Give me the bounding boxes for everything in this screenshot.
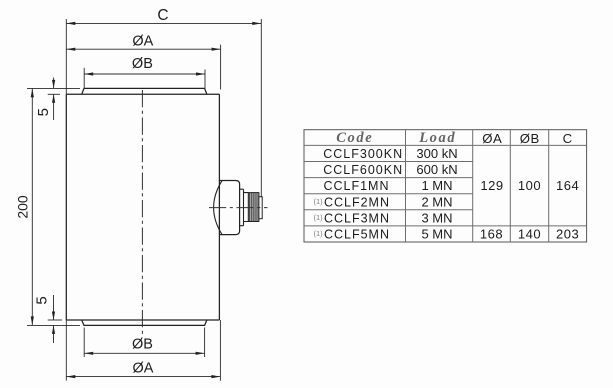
extension tick cylinder bottom level: [48, 319, 62, 321]
arrow 200 bottom: [31, 316, 34, 325]
dimension line 200: [31, 88, 33, 325]
extension line top plate level: [27, 87, 80, 89]
table row line 3: [304, 193, 473, 195]
arrow 200 top: [31, 88, 34, 97]
dimension line 5 top lower: [53, 94, 55, 120]
arrow 5 top down: [52, 80, 55, 89]
table vertical line Code|Load: [405, 130, 407, 242]
svg-text:(1): (1): [314, 197, 324, 206]
arrow 5 bottom down: [52, 312, 55, 321]
dimension line 5 bottom upper: [53, 295, 55, 320]
arrow OB top left: [84, 72, 93, 75]
table header underline: [304, 144, 587, 146]
svg-text:CCLF3MN: CCLF3MN: [324, 211, 390, 225]
svg-text:ØB: ØB: [520, 131, 540, 146]
dimension line C: [66, 22, 261, 24]
arrow 5 bottom up: [52, 325, 55, 334]
bottom load button plate: [82, 320, 207, 325]
dimension line 5 top upper: [53, 78, 55, 89]
vertical centerline: [141, 90, 143, 334]
extension line bottom plate level: [27, 324, 80, 326]
arrow OB bottom right: [196, 352, 205, 355]
svg-text:300 kN: 300 kN: [416, 146, 457, 161]
dimension line 5 bottom lower: [53, 325, 55, 343]
svg-text:100: 100: [518, 178, 541, 193]
dimension line OB bottom: [84, 352, 204, 354]
table row line 5: [304, 225, 587, 227]
arrow C left: [66, 22, 75, 25]
arrow C right: [252, 22, 261, 25]
svg-text:ØA: ØA: [133, 360, 154, 376]
svg-text:CCLF300KN: CCLF300KN: [323, 147, 403, 161]
svg-text:C: C: [157, 7, 168, 24]
table row line 4: [304, 209, 473, 211]
connector end cap: [259, 197, 262, 219]
connector flange: [240, 189, 244, 226]
svg-text:600 kN: 600 kN: [416, 162, 457, 177]
connector shank: [244, 193, 249, 222]
arrow OA top left: [66, 48, 75, 51]
svg-text:2 MN: 2 MN: [421, 194, 452, 209]
svg-text:(1): (1): [314, 213, 324, 222]
svg-text:203: 203: [556, 227, 579, 242]
arrow 5 top up: [52, 94, 55, 103]
extension lines bottom OB: [83, 328, 85, 358]
svg-text:5: 5: [35, 108, 52, 116]
table row line 1: [304, 161, 473, 163]
extension line right for C: [260, 19, 262, 197]
arrow OA top right: [212, 48, 221, 51]
svg-text:C: C: [563, 131, 573, 146]
extension line right for OA top: [220, 45, 222, 90]
arrow OA bottom right: [211, 375, 220, 378]
extension line left for OB top: [83, 68, 85, 88]
table vertical line Load|OA: [472, 130, 474, 242]
extension tick cylinder top level: [48, 93, 60, 95]
svg-text:Code: Code: [336, 130, 373, 146]
arrow OA bottom left: [66, 375, 75, 378]
svg-text:164: 164: [556, 178, 579, 193]
connector horizontal centerline: [209, 207, 268, 209]
dimension line OA bottom: [66, 376, 220, 378]
svg-text:(1): (1): [314, 229, 324, 238]
connector boss intersection arc: [214, 181, 222, 235]
svg-text:5: 5: [34, 296, 51, 304]
table vertical line OB|C: [548, 130, 550, 242]
arrow OB top right: [196, 72, 205, 75]
connector boss body: [219, 181, 239, 235]
arrow OB bottom left: [84, 352, 93, 355]
dimension line OA top: [66, 48, 220, 50]
svg-text:CCLF1MN: CCLF1MN: [323, 179, 389, 193]
svg-text:168: 168: [480, 227, 503, 242]
svg-text:140: 140: [518, 227, 541, 242]
svg-text:ØB: ØB: [132, 336, 153, 352]
extension lines bottom OA: [65, 320, 67, 381]
svg-text:ØB: ØB: [132, 56, 153, 72]
svg-text:CCLF2MN: CCLF2MN: [324, 195, 390, 209]
top load button plate: [82, 88, 207, 94]
svg-text:Load: Load: [418, 130, 456, 146]
table vertical line OA|OB: [509, 130, 511, 242]
svg-text:ØA: ØA: [132, 34, 153, 50]
svg-text:ØA: ØA: [482, 131, 502, 146]
extension line right for OB top: [204, 70, 206, 90]
dimension line OB top: [84, 73, 205, 75]
svg-text:200: 200: [15, 195, 31, 219]
connector threaded section: [248, 193, 259, 222]
svg-text:1 MN: 1 MN: [421, 178, 452, 193]
svg-text:CCLF5MN: CCLF5MN: [324, 228, 390, 242]
table frame: [304, 130, 587, 242]
load cell cylindrical body: [66, 94, 219, 320]
svg-text:5 MN: 5 MN: [421, 227, 452, 242]
extension line left (C / OA): [65, 19, 67, 94]
svg-text:129: 129: [480, 178, 503, 193]
table row line 2: [304, 177, 473, 179]
svg-text:3 MN: 3 MN: [421, 210, 452, 225]
svg-text:CCLF600KN: CCLF600KN: [323, 163, 403, 177]
